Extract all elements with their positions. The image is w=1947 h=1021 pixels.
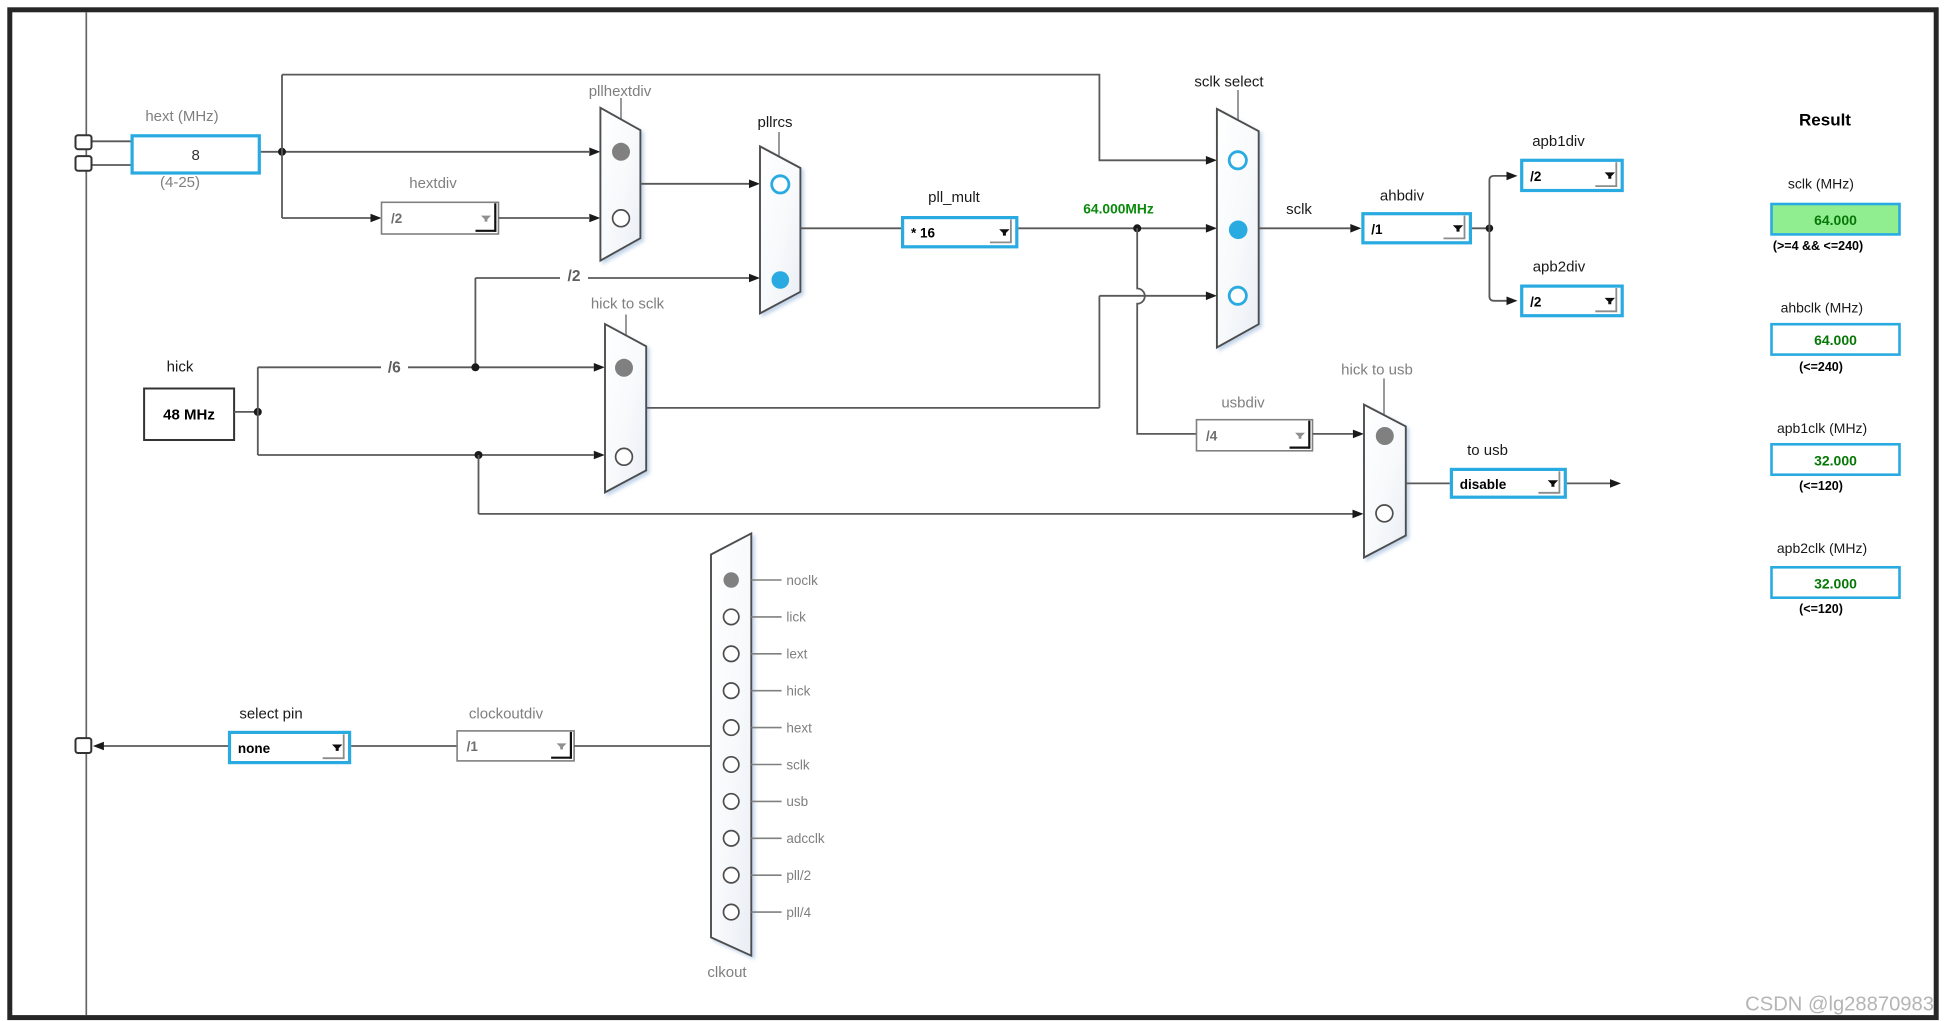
svg-text:disable: disable bbox=[1460, 477, 1507, 492]
svg-text:usbdiv: usbdiv bbox=[1221, 395, 1265, 412]
wire hext feedback to sclk select top bbox=[282, 75, 1206, 161]
combo apb1div /2 bbox=[1522, 160, 1623, 190]
wire usb output arrow bbox=[1567, 482, 1610, 484]
wire pll to usbdiv with hop bbox=[1137, 228, 1196, 434]
wire hext to hextdiv bbox=[282, 217, 371, 219]
svg-text:clkout: clkout bbox=[707, 964, 747, 981]
wire hick box to junction bbox=[234, 411, 258, 413]
combo clockoutdiv /1 bbox=[457, 731, 574, 761]
mux clkout bbox=[711, 533, 751, 955]
svg-text:/2: /2 bbox=[1530, 169, 1541, 184]
wire hextdiv to pllhextdiv input 2 bbox=[499, 217, 590, 219]
mux pllhextdiv bbox=[600, 108, 640, 261]
svg-text:64.000MHz: 64.000MHz bbox=[1083, 202, 1154, 217]
clkout channel sclk bbox=[724, 757, 739, 772]
svg-text:/6: /6 bbox=[388, 360, 401, 377]
node pll output junction bbox=[1133, 224, 1141, 232]
svg-text:/1: /1 bbox=[467, 739, 479, 754]
clkout channel usb bbox=[724, 794, 739, 809]
svg-text:clockoutdiv: clockoutdiv bbox=[469, 706, 544, 723]
hick source box 48 MHz bbox=[144, 389, 234, 441]
clkout channel lick bbox=[724, 609, 739, 624]
node div6 junction bbox=[471, 363, 479, 371]
svg-text:ahbclk (MHz): ahbclk (MHz) bbox=[1781, 300, 1863, 316]
svg-text:hick: hick bbox=[167, 359, 194, 376]
svg-text:hick: hick bbox=[786, 684, 810, 699]
svg-text:/2: /2 bbox=[1530, 294, 1541, 309]
mux sclk select bbox=[1217, 109, 1259, 348]
svg-text:apb1div: apb1div bbox=[1532, 133, 1585, 150]
label /6 bbox=[381, 359, 408, 374]
result box ahbclk 64.000 bbox=[1772, 324, 1900, 354]
wire hick to usb mux output bbox=[1406, 482, 1450, 484]
mux pllrcs bbox=[760, 146, 800, 313]
pin square P1 bbox=[76, 135, 92, 149]
result box sclk 64.000 bbox=[1772, 204, 1900, 234]
svg-text:sclk: sclk bbox=[1286, 201, 1312, 218]
svg-text:/1: /1 bbox=[1371, 222, 1383, 237]
svg-text:to usb: to usb bbox=[1467, 442, 1508, 459]
svg-text:hextdiv: hextdiv bbox=[409, 175, 457, 192]
svg-text:hick to sclk: hick to sclk bbox=[591, 296, 665, 313]
svg-text:adcclk: adcclk bbox=[786, 831, 825, 846]
svg-text:(<=120): (<=120) bbox=[1799, 479, 1843, 493]
combo pll_mult * 16 bbox=[903, 218, 1017, 247]
svg-text:* 16: * 16 bbox=[911, 226, 936, 241]
wire pllrcs to pll_mult bbox=[800, 227, 901, 229]
svg-text:(>=4 && <=240): (>=4 && <=240) bbox=[1773, 239, 1863, 253]
svg-text:select pin: select pin bbox=[239, 706, 302, 723]
svg-text:64.000: 64.000 bbox=[1814, 332, 1857, 348]
svg-text:(<=240): (<=240) bbox=[1799, 360, 1843, 374]
svg-text:64.000: 64.000 bbox=[1814, 212, 1857, 228]
wire pllhextdiv to pllrcs input 1 bbox=[640, 183, 749, 185]
mux hick to sclk bbox=[605, 324, 646, 492]
result box apb1clk 32.000 bbox=[1772, 444, 1900, 474]
wire ahbclk to apb2div bbox=[1489, 228, 1507, 300]
svg-text:hick to usb: hick to usb bbox=[1341, 362, 1413, 379]
wire hext vertical branch bbox=[281, 75, 283, 218]
wire ahbclk to apb1div bbox=[1489, 176, 1507, 228]
svg-text:usb: usb bbox=[786, 794, 808, 809]
svg-text:apb2div: apb2div bbox=[1533, 259, 1586, 276]
svg-text:48 MHz: 48 MHz bbox=[163, 407, 215, 424]
svg-text:/2: /2 bbox=[568, 268, 581, 285]
node hext junction bbox=[278, 148, 286, 156]
svg-text:apb2clk (MHz): apb2clk (MHz) bbox=[1777, 540, 1867, 556]
result box apb2clk 32.000 bbox=[1772, 567, 1900, 597]
svg-text:sclk: sclk bbox=[786, 757, 809, 772]
svg-text:sclk select: sclk select bbox=[1194, 74, 1264, 91]
wire pin1 to hext box bbox=[92, 140, 132, 142]
wire clkout to pin with arrow bbox=[103, 745, 228, 747]
svg-text:/2: /2 bbox=[391, 211, 402, 226]
svg-text:lext: lext bbox=[786, 647, 807, 662]
clkout channel pll/4 bbox=[724, 904, 739, 919]
svg-text:8: 8 bbox=[192, 147, 200, 164]
wire hext to pllhextdiv input 1 bbox=[261, 151, 589, 153]
mux hick to usb bbox=[1364, 405, 1406, 558]
svg-text:/4: /4 bbox=[1206, 428, 1218, 443]
wire hick div2 to pllrcs input 2 bbox=[475, 277, 749, 279]
label /2 bbox=[560, 265, 588, 280]
wire hick down to usb line bbox=[478, 455, 480, 514]
node hick junction bbox=[254, 408, 262, 416]
node hick lower junction bbox=[475, 451, 483, 459]
combo hextdiv /2 bbox=[382, 202, 499, 234]
hext frequency input box value 8 bbox=[132, 136, 259, 173]
wire vertical to sclk select input 3 bbox=[1098, 296, 1100, 408]
svg-text:hext (MHz): hext (MHz) bbox=[145, 108, 218, 125]
svg-text:pll_mult: pll_mult bbox=[928, 189, 981, 206]
clkout channel hext bbox=[724, 720, 739, 735]
wire hick-to-sclk to sclk select input 3 bbox=[1099, 295, 1206, 297]
combo to usb disable bbox=[1451, 469, 1565, 497]
combo select pin none bbox=[230, 732, 350, 762]
svg-text:noclk: noclk bbox=[786, 573, 818, 588]
combo apb2div /2 bbox=[1522, 286, 1623, 316]
pin square clkout bbox=[76, 738, 92, 753]
svg-text:hext: hext bbox=[786, 720, 812, 735]
combo usbdiv /4 bbox=[1197, 420, 1313, 451]
wire pll_mult to sclk select input 2 bbox=[1018, 227, 1206, 229]
svg-text:pll/4: pll/4 bbox=[786, 905, 811, 920]
svg-text:pllrcs: pllrcs bbox=[757, 114, 792, 131]
clkout channel lext bbox=[724, 646, 739, 661]
wire hick to hick-to-usb input 2 bbox=[479, 513, 1353, 515]
svg-text:ahbdiv: ahbdiv bbox=[1380, 188, 1425, 205]
wire select pin to clockoutdiv bbox=[351, 745, 457, 747]
stub pllhextdiv label line bbox=[620, 98, 622, 119]
wire vertical hick div2 bbox=[474, 278, 476, 367]
svg-text:lick: lick bbox=[786, 610, 806, 625]
stub sclk select label line bbox=[1237, 90, 1239, 120]
svg-text:sclk (MHz): sclk (MHz) bbox=[1788, 176, 1854, 192]
wire clockoutdiv to clkout mux bbox=[574, 745, 711, 747]
svg-text:apb1clk (MHz): apb1clk (MHz) bbox=[1777, 420, 1867, 436]
wire hick-to-sclk output bbox=[646, 407, 1099, 409]
node ahbclk junction bbox=[1486, 225, 1494, 233]
stub hick to usb label line bbox=[1383, 379, 1385, 416]
clkout channel hick bbox=[724, 683, 739, 698]
combo ahbdiv /1 bbox=[1363, 214, 1471, 243]
svg-text:(<=120): (<=120) bbox=[1799, 602, 1843, 616]
svg-text:pllhextdiv: pllhextdiv bbox=[589, 83, 652, 100]
svg-text:none: none bbox=[238, 741, 271, 756]
clkout channel noclk bbox=[724, 572, 739, 587]
svg-text:pll/2: pll/2 bbox=[786, 868, 811, 883]
clkout channel pll/2 bbox=[724, 868, 739, 883]
wire hick vertical split bbox=[257, 367, 259, 455]
stub hick to sclk label line bbox=[625, 315, 627, 337]
svg-text:32.000: 32.000 bbox=[1814, 452, 1857, 468]
svg-text:32.000: 32.000 bbox=[1814, 575, 1857, 591]
pin header vertical line bbox=[85, 12, 87, 1015]
svg-text:CSDN @lg28870983: CSDN @lg28870983 bbox=[1745, 994, 1934, 1016]
clkout channel adcclk bbox=[724, 831, 739, 846]
wire hick div6 to hick-to-sclk input 1 bbox=[258, 366, 594, 368]
wire sclk select to ahbdiv bbox=[1259, 227, 1351, 229]
wire hick to hick-to-sclk input 2 bbox=[258, 454, 594, 456]
svg-text:Result: Result bbox=[1799, 111, 1851, 130]
pin square P2 bbox=[76, 156, 92, 171]
wire usbdiv to hick-to-usb input 1 bbox=[1313, 433, 1353, 435]
svg-text:(4-25): (4-25) bbox=[160, 174, 200, 191]
wire pin2 to hext box bbox=[92, 164, 132, 166]
stub pllrcs label line bbox=[778, 132, 780, 156]
wire ahbdiv to junction bbox=[1472, 227, 1489, 229]
